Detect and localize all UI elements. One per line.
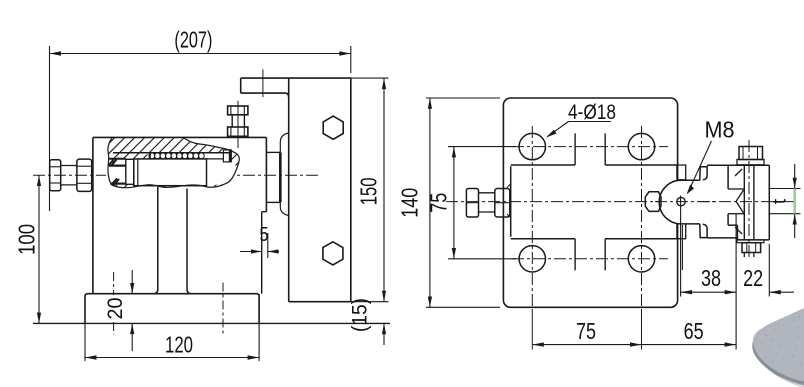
slot edges top <box>575 133 605 165</box>
spring coils <box>149 153 204 159</box>
plate recess fillets <box>280 133 288 152</box>
t green gap line <box>794 189 796 214</box>
base hole centerline left <box>113 272 115 335</box>
mounting tab <box>241 78 289 97</box>
pivot hole M8 <box>677 197 685 205</box>
hole row centerlines <box>512 147 668 259</box>
hole bottom-right <box>628 246 654 272</box>
dimension 75 left <box>448 147 516 259</box>
inner body rectangle <box>511 165 677 239</box>
dimension 140 <box>426 98 500 307</box>
dimension 120 <box>85 294 259 361</box>
svg-text:4-Ø18: 4-Ø18 <box>568 101 616 124</box>
cutaway hatch <box>108 138 239 188</box>
bracket slot <box>728 169 744 234</box>
dimension 20 <box>130 270 134 351</box>
svg-text:M8: M8 <box>705 117 735 143</box>
svg-text:t: t <box>770 198 791 204</box>
dimension 150 <box>351 78 389 302</box>
vertical centerlines <box>532 126 641 312</box>
svg-text:150: 150 <box>356 177 382 205</box>
screw shaft <box>61 166 77 185</box>
spring coil bars <box>155 153 199 158</box>
body ears at right edge <box>677 165 686 239</box>
bore top line <box>113 152 231 154</box>
dimension 100 <box>37 175 41 323</box>
long extension line <box>735 214 737 350</box>
t dimension <box>768 164 800 238</box>
plate rounded square <box>503 98 677 307</box>
ground line <box>33 322 390 324</box>
left bolt top view <box>466 184 511 219</box>
screw hex nut 1 <box>50 160 61 191</box>
svg-text:38: 38 <box>701 265 721 291</box>
dimension 22 <box>769 244 794 297</box>
svg-text:22: 22 <box>743 265 763 291</box>
boss on right face <box>266 152 280 202</box>
hole top-left <box>519 133 545 159</box>
spring left cap <box>149 153 151 159</box>
adjusting screw head in bore <box>109 159 134 186</box>
dimension 75 bottom <box>532 342 641 346</box>
clamp arm edges <box>707 165 769 240</box>
top bolt <box>228 101 248 148</box>
hex bolt head lower <box>323 242 343 265</box>
white cover shapes <box>106 150 236 186</box>
lower step on right face <box>262 212 267 294</box>
svg-text:140: 140 <box>397 188 423 218</box>
hex bolt head upper <box>323 116 343 139</box>
svg-text:(207): (207) <box>174 27 212 53</box>
clamp screw end hex <box>645 192 661 212</box>
hole top-right <box>628 133 654 159</box>
svg-text:75: 75 <box>426 193 452 213</box>
hole bottom-left <box>519 246 545 272</box>
dimension (207) <box>50 46 351 211</box>
right vertical plate <box>241 78 351 302</box>
dimension 65 bottom <box>642 342 737 346</box>
bore bottom line to plug <box>207 158 224 160</box>
tab hole centerline <box>262 69 264 97</box>
base <box>85 294 259 324</box>
wavy break outline <box>108 138 239 188</box>
clamp bracket <box>728 165 769 240</box>
dimension 5 <box>240 233 279 258</box>
slot edges bottom <box>575 239 605 271</box>
svg-text:20: 20 <box>104 298 127 320</box>
screw hex nut 2 <box>77 159 92 191</box>
main body outline <box>93 137 267 293</box>
dimension 38 <box>681 196 737 297</box>
svg-text:5: 5 <box>260 224 269 246</box>
svg-text:65: 65 <box>684 318 704 344</box>
dimension (15) <box>382 323 386 345</box>
column <box>153 187 191 294</box>
svg-text:75: 75 <box>576 318 596 344</box>
svg-text:(15): (15) <box>349 298 372 332</box>
main centerline <box>446 201 796 203</box>
centerline over pivot <box>655 201 715 203</box>
pivot clevis <box>659 180 700 224</box>
bore end plug <box>223 150 231 162</box>
svg-text:120: 120 <box>165 332 193 358</box>
svg-text:100: 100 <box>14 224 40 255</box>
base hole centerline right <box>222 283 224 334</box>
centerline left view <box>33 174 318 176</box>
plunger rod <box>134 159 207 186</box>
clamp bolt <box>737 140 764 259</box>
grey slab photo corner <box>752 308 804 387</box>
